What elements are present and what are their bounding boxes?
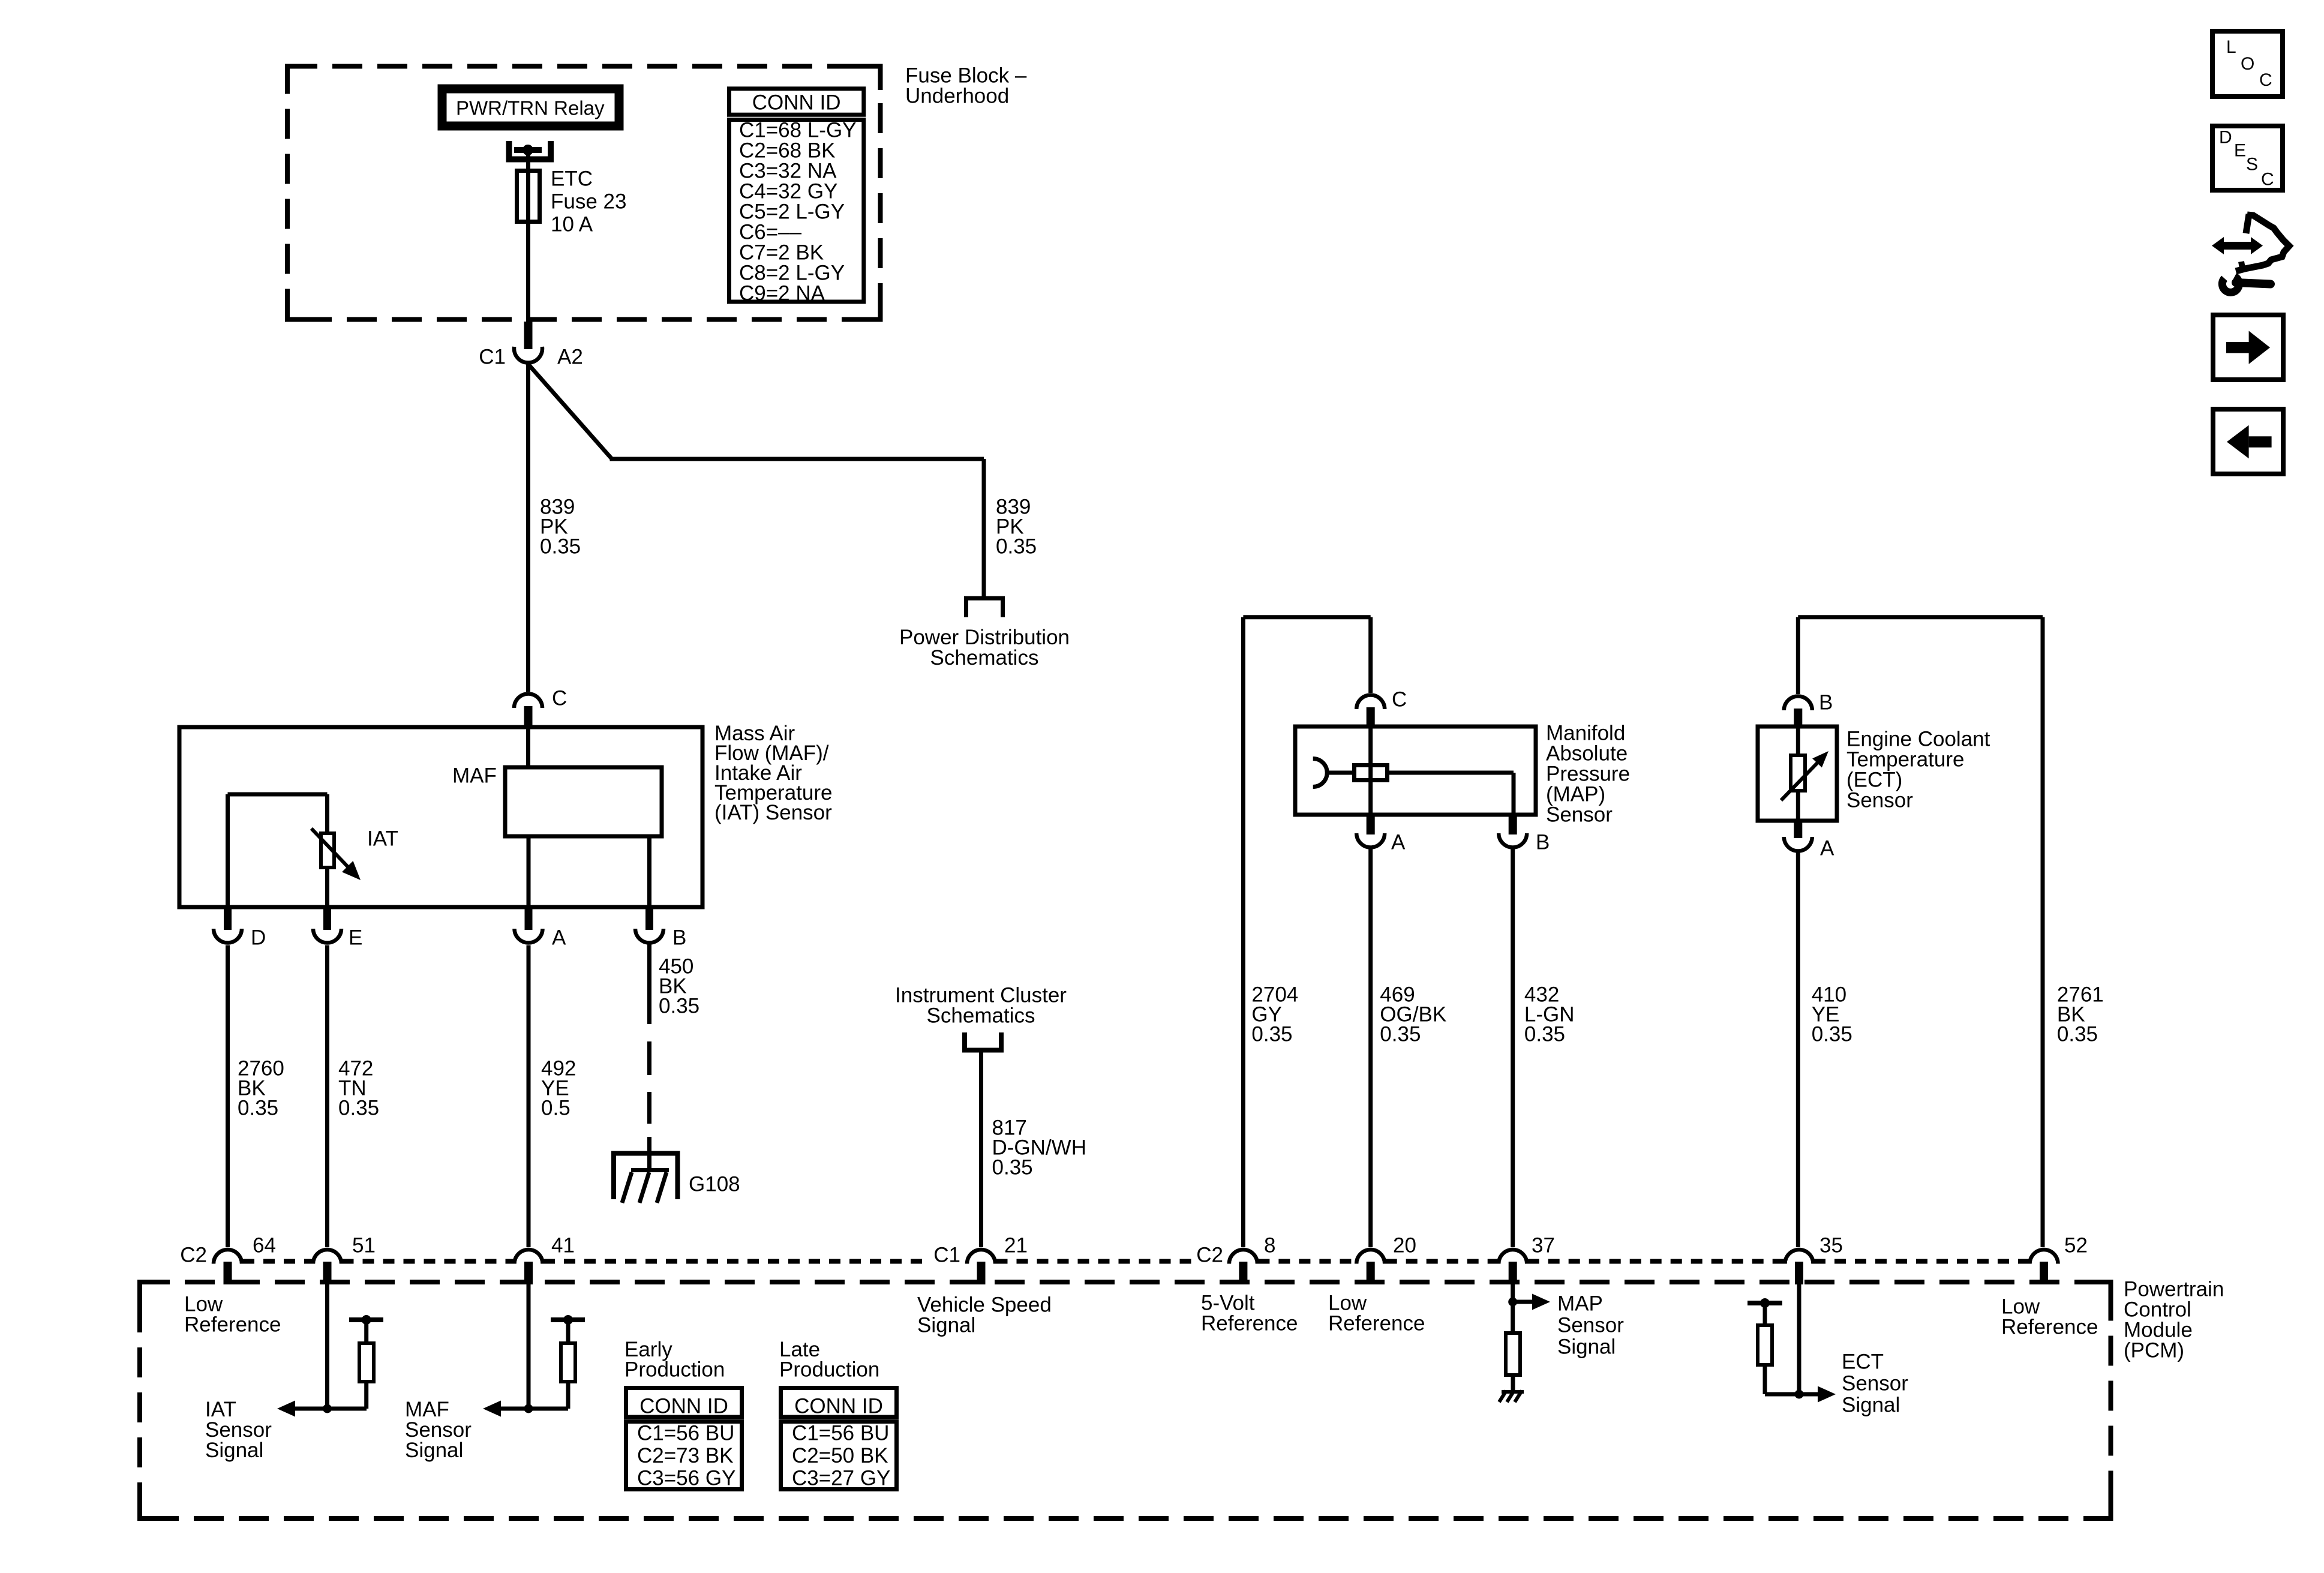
wire 469 OG/BK from MAP A to pin 20 <box>1368 848 1373 1247</box>
wire 450 BK dashed from B to G108 <box>647 943 651 1024</box>
ground G108 <box>614 1154 678 1200</box>
pin 8 connector dome C2 <box>1229 1250 1257 1264</box>
wire transducer to B internal <box>1387 771 1514 775</box>
svg-text:0.5: 0.5 <box>541 1097 571 1120</box>
svg-text:MAP: MAP <box>1557 1292 1603 1316</box>
resistor IAT pull-up <box>349 1317 383 1322</box>
svg-text:C1=56 BU: C1=56 BU <box>637 1422 734 1445</box>
svg-text:Signal: Signal <box>1842 1394 1900 1417</box>
wire ECT internal bottom <box>1796 791 1800 821</box>
svg-text:35: 35 <box>1819 1234 1843 1257</box>
svg-text:Signal: Signal <box>1557 1335 1616 1359</box>
connector terminal A at MAP <box>1367 815 1375 834</box>
fuse block underhood dashed box <box>287 67 881 320</box>
svg-text:0.35: 0.35 <box>1380 1023 1421 1046</box>
wire 817 D-GN/WH to pin 21 <box>979 1053 983 1248</box>
wire MAP C internal vertical <box>1368 727 1373 815</box>
svg-text:B: B <box>1819 691 1833 715</box>
pin 51 connector dome <box>313 1250 341 1264</box>
wire ECT internal top <box>1796 727 1800 755</box>
wire 2761 BK vertical to pin 52 <box>2041 617 2045 1247</box>
svg-text:CONN ID: CONN ID <box>639 1395 728 1418</box>
relay contact symbol <box>509 141 551 160</box>
svg-text:C: C <box>2259 70 2272 90</box>
wire 2760 BK from D to pin 64 <box>226 945 230 1248</box>
pin 35 connector dome <box>1785 1250 1813 1264</box>
svg-text:0.35: 0.35 <box>338 1097 379 1120</box>
svg-text:C2=50 BK: C2=50 BK <box>792 1444 888 1467</box>
svg-text:0.35: 0.35 <box>1812 1023 1852 1046</box>
svg-text:Schematics: Schematics <box>930 646 1039 670</box>
svg-text:Production: Production <box>779 1358 879 1382</box>
connector terminal E <box>323 909 331 930</box>
MAF element box <box>505 767 662 836</box>
svg-text:ECT: ECT <box>1842 1350 1884 1374</box>
wire relay to fuse <box>526 150 530 170</box>
svg-text:Schematics: Schematics <box>927 1004 1035 1028</box>
svg-text:Signal: Signal <box>917 1314 975 1337</box>
svg-text:B: B <box>1536 831 1550 854</box>
connector C dome at MAP <box>1356 695 1385 710</box>
svg-text:0.35: 0.35 <box>540 535 581 559</box>
svg-text:E: E <box>349 926 362 950</box>
connector C1 pin A2 cup <box>514 347 542 363</box>
wire 410 YE from ECT A to pin 35 <box>1796 852 1800 1247</box>
pin 64 connector dome C2 <box>214 1250 242 1264</box>
wire 2704 GY horizontal top <box>1243 615 1370 619</box>
PCM dashed box <box>140 1282 2111 1518</box>
wire IAT branch right vertical <box>325 794 329 833</box>
svg-text:52: 52 <box>2064 1234 2088 1257</box>
svg-text:G108: G108 <box>689 1173 740 1196</box>
svg-text:A: A <box>1820 837 1834 860</box>
wire 492 YE from A to pin 41 <box>527 945 531 1248</box>
fuse F ETC Fuse 23 10A <box>517 171 540 222</box>
svg-text:Sensor: Sensor <box>1557 1314 1624 1337</box>
wire ECT signal inside PCM <box>1797 1284 1801 1394</box>
connector terminal A <box>525 909 533 930</box>
svg-text:0.35: 0.35 <box>1524 1023 1565 1046</box>
wire MAF to B terminal <box>647 836 651 909</box>
svg-text:Reference: Reference <box>1328 1312 1425 1335</box>
svg-text:Sensor: Sensor <box>1842 1372 1908 1395</box>
svg-text:Signal: Signal <box>405 1439 463 1462</box>
svg-text:C2: C2 <box>1196 1244 1223 1267</box>
svg-text:C2=73 BK: C2=73 BK <box>637 1444 734 1467</box>
svg-text:C1: C1 <box>933 1244 960 1267</box>
svg-text:0.35: 0.35 <box>2057 1023 2098 1046</box>
icon LOC box <box>2212 31 2283 97</box>
MAF/IAT sensor box <box>179 727 702 907</box>
svg-text:C1=56 BU: C1=56 BU <box>792 1422 889 1445</box>
connector terminal A at ECT <box>1794 821 1802 838</box>
svg-text:E: E <box>2234 141 2246 161</box>
wire 839 PK segment down <box>526 364 530 692</box>
wire C into MAF element <box>526 727 530 767</box>
wire 839 PK vertical to power distribution <box>982 459 986 596</box>
wire 839 PK diagonal branch <box>529 364 612 459</box>
svg-text:0.35: 0.35 <box>992 1156 1033 1179</box>
resistor ECT pull-up <box>1747 1301 1782 1305</box>
svg-text:C9=2 NA: C9=2 NA <box>739 282 825 305</box>
svg-text:A: A <box>552 926 566 950</box>
pin 21 connector dome C1 <box>967 1250 995 1264</box>
wire IAT branch left vertical <box>226 794 230 909</box>
wire MAP signal inside PCM <box>1511 1284 1515 1333</box>
svg-text:IAT: IAT <box>367 827 398 851</box>
pin 41 connector dome <box>515 1250 543 1264</box>
connector C dome at MAF <box>514 694 542 709</box>
thermistor ECT <box>1791 755 1805 791</box>
svg-text:A2: A2 <box>557 346 583 369</box>
CONN ID table early production <box>626 1388 742 1418</box>
svg-text:8: 8 <box>1264 1234 1275 1257</box>
connector terminal B at MAP <box>1509 815 1517 834</box>
svg-text:C2: C2 <box>180 1244 207 1267</box>
svg-text:Sensor: Sensor <box>1546 803 1613 827</box>
svg-text:D: D <box>2219 128 2232 148</box>
wire 839 PK horizontal branch <box>610 457 984 461</box>
svg-text:Reference: Reference <box>1201 1312 1298 1335</box>
svg-text:(PCM): (PCM) <box>2124 1339 2184 1362</box>
wire 2704 GY down to MAP C <box>1368 617 1373 693</box>
off-page bracket power distribution <box>966 598 1003 617</box>
svg-text:64: 64 <box>253 1234 276 1257</box>
thermistor IAT <box>321 833 334 867</box>
wire IAT branch top horizontal <box>228 792 328 797</box>
wire 432 L-GN from MAP B to pin 37 <box>1511 848 1515 1247</box>
wire 472 TN from E to pin 51 <box>325 945 329 1248</box>
svg-text:ETC: ETC <box>551 167 593 191</box>
icon forward arrow box <box>2213 315 2283 380</box>
connector interface dotted line <box>243 1259 313 1264</box>
wire MAF signal inside PCM <box>527 1284 531 1409</box>
svg-text:0.35: 0.35 <box>659 995 699 1018</box>
MAP sensor box <box>1295 727 1536 815</box>
svg-text:0.35: 0.35 <box>1251 1023 1292 1046</box>
ground internal MAP <box>1499 1391 1506 1402</box>
svg-text:Reference: Reference <box>2001 1316 2098 1339</box>
svg-text:37: 37 <box>1532 1234 1555 1257</box>
svg-text:0.35: 0.35 <box>238 1097 278 1120</box>
connector terminal B <box>645 909 653 930</box>
svg-text:CONN ID: CONN ID <box>794 1395 883 1418</box>
svg-text:Fuse 23: Fuse 23 <box>551 190 626 214</box>
svg-text:20: 20 <box>1393 1234 1416 1257</box>
svg-text:Sensor: Sensor <box>1846 789 1913 812</box>
pin 52 connector dome <box>2029 1250 2058 1264</box>
relay K PWR/TRN Relay box <box>442 89 619 126</box>
MAP internal port arc <box>1313 759 1327 787</box>
wire IAT to E terminal <box>325 867 329 909</box>
svg-text:A: A <box>1391 831 1406 854</box>
MAP transducer element <box>1355 766 1388 781</box>
svg-text:C3=56 GY: C3=56 GY <box>637 1467 735 1490</box>
svg-text:D: D <box>251 926 266 950</box>
wire ECT B up <box>1796 617 1800 694</box>
svg-text:C3=27 GY: C3=27 GY <box>792 1467 890 1490</box>
resistor MAF pull-up <box>551 1317 585 1322</box>
wire IAT signal inside PCM <box>325 1284 329 1409</box>
svg-text:51: 51 <box>352 1234 376 1257</box>
connector B dome at ECT <box>1784 697 1812 711</box>
svg-text:B: B <box>672 926 686 950</box>
icon check/repair hand with wrench <box>2212 214 2289 292</box>
svg-text:(IAT) Sensor: (IAT) Sensor <box>714 801 832 824</box>
svg-text:C1: C1 <box>479 346 506 369</box>
svg-text:C: C <box>2261 170 2274 190</box>
connector C1 pin A2 stub <box>524 322 533 349</box>
wire 2704 GY vertical from pin 8 <box>1241 617 1245 1247</box>
svg-text:10 A: 10 A <box>551 213 593 236</box>
svg-text:PWR/TRN Relay: PWR/TRN Relay <box>456 97 605 119</box>
svg-text:O: O <box>2241 54 2254 74</box>
resistor MAP pull-down <box>1506 1333 1520 1375</box>
svg-text:Signal: Signal <box>205 1439 263 1462</box>
svg-text:C: C <box>552 687 567 710</box>
CONN ID table late production <box>781 1388 897 1418</box>
wire port to transducer <box>1326 771 1354 775</box>
svg-text:C: C <box>1392 688 1407 712</box>
svg-text:S: S <box>2246 155 2258 175</box>
svg-text:Production: Production <box>624 1358 725 1382</box>
wire fuse through to C1 <box>526 170 530 324</box>
svg-text:Underhood: Underhood <box>905 85 1009 108</box>
icon back arrow box <box>2213 409 2283 474</box>
icon DESC box <box>2212 126 2283 190</box>
svg-text:CONN ID: CONN ID <box>752 91 841 115</box>
wire MAF to A terminal <box>527 836 531 909</box>
connector terminal D <box>224 909 232 930</box>
ECT sensor box <box>1758 727 1837 821</box>
svg-text:21: 21 <box>1004 1234 1028 1257</box>
svg-text:41: 41 <box>551 1234 575 1257</box>
wire 2761 BK horizontal top from ECT B <box>1798 615 2043 619</box>
svg-text:L: L <box>2226 37 2236 57</box>
svg-text:Reference: Reference <box>184 1313 281 1337</box>
svg-text:0.35: 0.35 <box>996 535 1037 559</box>
svg-text:MAF: MAF <box>452 764 497 788</box>
off-page bracket instrument cluster <box>965 1032 1001 1050</box>
pin 37 connector dome <box>1499 1250 1527 1264</box>
CONN ID table fuse block <box>729 89 864 115</box>
pin 20 connector dome <box>1356 1250 1385 1264</box>
